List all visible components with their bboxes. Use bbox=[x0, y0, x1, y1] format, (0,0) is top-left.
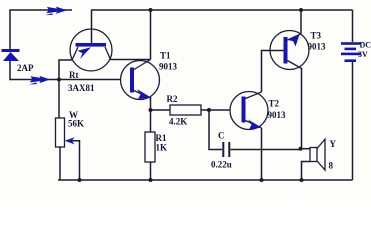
wire Q1 collector to T1 collector node bbox=[111, 59, 151, 61]
transistor T1 base bar bbox=[130, 68, 134, 93]
svg-text:2AP: 2AP bbox=[17, 63, 34, 73]
svg-text:Rt: Rt bbox=[69, 70, 79, 80]
transistor T2 collector lead bbox=[246, 92, 262, 99]
wire top rail main segment bbox=[91, 9, 353, 11]
wire node D to speaker top terminal bbox=[301, 148, 311, 150]
capacitor C left plate bbox=[222, 142, 224, 157]
transistor Q1 base bar bbox=[76, 43, 107, 47]
diode D 2AP anode triangle bbox=[3, 52, 19, 61]
wire T3 emitter to top rail bbox=[300, 10, 302, 34]
junction node D dot bbox=[299, 147, 303, 151]
wire bottom rail bbox=[58, 179, 353, 181]
wire T1 collector to top rail bbox=[150, 10, 152, 60]
svg-text:0.22u: 0.22u bbox=[211, 160, 232, 170]
wire node B down to R1 bbox=[150, 110, 152, 132]
svg-text:T2: T2 bbox=[269, 99, 280, 109]
wire T1 emitter down to node B bbox=[150, 97, 152, 110]
transistor T1 emitter arrow bbox=[137, 89, 151, 99]
transistor Q1 emitter lead bbox=[72, 47, 78, 60]
transistor Q1 3AX81 circle bbox=[70, 29, 112, 71]
wire Q1 base from top rail bbox=[91, 10, 93, 44]
light arrow into top rail bbox=[45, 7, 67, 16]
battery DC 3V plates bbox=[341, 42, 361, 62]
wire speaker bottom terminal to bottom rail bbox=[302, 162, 311, 181]
svg-text:T3: T3 bbox=[311, 31, 322, 41]
transistor T2 emitter arrow bbox=[248, 120, 262, 130]
junction speaker / bottom rail dot bbox=[300, 178, 304, 182]
diode D 2AP cathode bar bbox=[2, 49, 20, 52]
junction T1 collector / top rail dot bbox=[149, 8, 153, 12]
wire right rail lower (battery -) bbox=[352, 62, 354, 180]
speaker Y driver box bbox=[310, 148, 317, 162]
wire capacitor to speaker node D bbox=[231, 149, 301, 151]
svg-text:DC: DC bbox=[360, 41, 371, 50]
transistor Q1 emitter arrow bbox=[78, 47, 92, 59]
wire top rail left segment bbox=[10, 10, 72, 49]
wire T3 collector down to node D bbox=[301, 68, 303, 149]
transistor T3 emitter arrow bbox=[288, 35, 300, 47]
transistor T1 emitter lead bbox=[134, 91, 151, 99]
transistor T2 emitter lead bbox=[246, 121, 262, 129]
svg-text:3AX81: 3AX81 bbox=[68, 83, 95, 93]
junction wiper / bottom rail dot bbox=[78, 178, 82, 182]
transistor T3 emitter lead (top) bbox=[288, 34, 302, 40]
wire T2 emitter to bottom rail bbox=[261, 128, 263, 180]
svg-text:C: C bbox=[218, 131, 225, 141]
transistor T2 circle bbox=[230, 92, 268, 130]
junction T3 emitter / top rail dot bbox=[299, 8, 303, 12]
wire node C down to capacitor bbox=[209, 110, 222, 150]
svg-text:R2: R2 bbox=[167, 94, 178, 104]
svg-text:9013: 9013 bbox=[268, 110, 287, 120]
svg-text:4.2K: 4.2K bbox=[169, 117, 187, 127]
svg-text:R1: R1 bbox=[156, 133, 167, 143]
light arrow into node A bbox=[29, 76, 50, 85]
capacitor C right plate bbox=[228, 142, 230, 157]
junction node A dot bbox=[57, 78, 61, 82]
wire T2 collector up and to T3 base bbox=[262, 51, 284, 93]
wire node A up to Q1 emitter bbox=[59, 60, 72, 80]
svg-text:8: 8 bbox=[329, 161, 334, 171]
transistor T1 circle bbox=[121, 61, 160, 100]
wire node A down to potentiometer W bbox=[58, 80, 60, 119]
wire node A to T1 base bbox=[59, 79, 121, 81]
potentiometer W body bbox=[56, 118, 65, 147]
transistor T1 collector lead bbox=[134, 60, 151, 70]
potentiometer W wiper arrow bbox=[65, 137, 75, 144]
wire R2 to T2 base bbox=[201, 109, 230, 111]
junction T2 emitter / bottom rail dot bbox=[260, 178, 264, 182]
svg-text:56K: 56K bbox=[68, 119, 84, 129]
speaker Y horn bbox=[317, 139, 325, 170]
wire diode anode to node A bbox=[10, 60, 57, 80]
junction R1 / bottom rail dot bbox=[149, 178, 153, 182]
transistor T3 circle bbox=[270, 31, 309, 70]
resistor R1 body bbox=[145, 132, 155, 162]
resistor R2 body bbox=[170, 105, 201, 115]
wire R1 to bottom rail bbox=[150, 162, 152, 180]
wire right rail upper (battery +) bbox=[352, 10, 354, 42]
wire wiper to bottom rail bbox=[66, 141, 80, 180]
junction node B dot bbox=[149, 108, 153, 112]
transistor Q1 collector lead bbox=[105, 47, 111, 60]
svg-text:9013: 9013 bbox=[159, 62, 178, 72]
svg-text:1K: 1K bbox=[156, 143, 168, 153]
svg-text:3V: 3V bbox=[358, 50, 368, 59]
wire potentiometer bottom lead bbox=[59, 147, 61, 180]
svg-text:Y: Y bbox=[330, 139, 337, 149]
svg-text:9013: 9013 bbox=[308, 42, 327, 52]
transistor T3 collector lead (bottom) bbox=[288, 61, 302, 69]
transistor T2 base bar bbox=[242, 97, 246, 123]
svg-text:T1: T1 bbox=[160, 51, 171, 61]
transistor T3 base bar bbox=[284, 37, 288, 64]
wire node B to R2 bbox=[151, 109, 171, 111]
junction node C dot bbox=[207, 108, 211, 112]
